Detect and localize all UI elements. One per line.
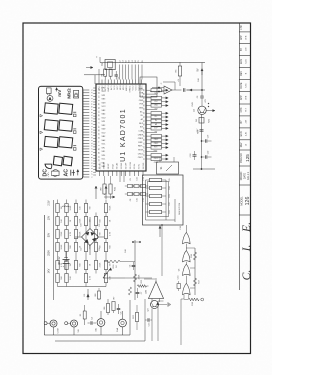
battery BT1 9V: [58, 251, 70, 270]
resistor R17 zigzag: [193, 278, 200, 286]
gate U3C: [179, 264, 191, 275]
op-amp U1 KAD7001 IC body: [96, 84, 146, 171]
input jack J4 10A: [116, 311, 126, 335]
gate U3B: [183, 251, 191, 262]
LCD digit 3 (full 8): [44, 120, 72, 132]
title model cell: [239, 196, 251, 206]
positive supply rail wire: [95, 56, 205, 63]
LCD annunciator mV text: [56, 88, 63, 97]
second rail wire: [53, 200, 55, 300]
IC U1 top pins to LCD: [93, 87, 106, 175]
input jack J3 mA: [95, 311, 105, 335]
page border frame: [23, 23, 251, 354]
capacitor C20: [201, 151, 212, 159]
gate feedback rail wire: [186, 248, 195, 295]
switch S1 wiper: [103, 268, 125, 278]
resistor R10: [109, 176, 117, 199]
resistor R4 box: [196, 118, 204, 124]
resistor R25 zigzag: [133, 274, 140, 282]
capacitor C18: [190, 151, 197, 160]
range grid left bus: [58, 286, 107, 288]
LCD digit 1 (half digit + 8): [45, 156, 72, 169]
LCD top pointer marks: [40, 114, 43, 150]
range divider resistor grid: [56, 200, 112, 287]
arrow node marker: [86, 66, 93, 68]
LCD annunciator diode symbol: [47, 96, 53, 102]
title dwg number cell: [241, 153, 250, 163]
title name date cell: [240, 171, 250, 180]
title block strip: [239, 23, 250, 290]
wires to left border: [145, 299, 164, 341]
capacitor C3: [197, 90, 207, 106]
resistor R18 vertical: [184, 298, 204, 306]
supply arrow +9V: [197, 68, 203, 75]
LCD annunciator AC text: [64, 169, 70, 177]
IC U1 bottom pins with net label boxes: [138, 88, 168, 164]
capacitor C7 cluster: [125, 249, 143, 298]
capacitor C14: [177, 275, 180, 291]
jack bus wire: [44, 300, 130, 335]
capacitor C4: [88, 316, 97, 324]
IC U1 left pins: [99, 162, 145, 176]
wire box to op-amp: [161, 224, 162, 276]
mid rail wire: [132, 240, 140, 300]
LCD digit 2 (full 8): [44, 136, 72, 148]
resistor R9: [101, 176, 107, 195]
fuse F1: [80, 305, 86, 325]
range wiper arrows: [95, 186, 107, 199]
arrow into R10: [104, 196, 115, 198]
inductor squiggle: [62, 206, 69, 207]
transistor Q3: [148, 301, 159, 312]
LCD annunciator minus plus marks: [71, 169, 79, 175]
box inner outline: [148, 182, 169, 217]
revision table headers: [240, 25, 247, 147]
LCD annunciator MkOhm text: [66, 88, 72, 99]
LCD annunciator battery icon: [74, 90, 79, 98]
crystal box X1: [102, 60, 115, 70]
COM rail wire top: [43, 215, 45, 335]
op-amp U2A feedback: [163, 79, 190, 92]
resistor R22: [133, 305, 139, 330]
ground Q3: [159, 302, 171, 306]
capacitor C17: [197, 128, 204, 133]
LCD digit 4 (full 8): [44, 103, 72, 115]
transistor area labels: [198, 78, 211, 134]
gate chain bottom wire: [181, 299, 184, 345]
oscillator fan-out wires: [119, 60, 144, 79]
input jack J2 V-ohm: [65, 320, 80, 335]
wire transistor rail: [187, 63, 215, 170]
AC converter box: [143, 175, 184, 225]
resistor R6: [104, 299, 110, 315]
resistor R1: [101, 69, 106, 80]
LCD decimal points: [73, 112, 76, 150]
switch group box: [140, 77, 157, 97]
LCD annunciator low-battery symbol: [47, 88, 52, 95]
resistor R21 zigzag: [137, 279, 149, 288]
gate U3A: [180, 225, 190, 243]
capacitor C15: [145, 318, 152, 326]
title text C.I.E.: [240, 222, 253, 280]
wire gate chain rail: [185, 225, 187, 283]
op-amp U2A: [150, 82, 172, 94]
diode bridge D2-D5: [75, 217, 104, 255]
input jack J1 COM: [44, 320, 59, 335]
transistor Q2: [192, 102, 215, 114]
capacitor C1: [115, 71, 121, 80]
resistors R11-R15 in box: [146, 178, 182, 222]
IC U1 right pins: [99, 80, 144, 93]
wire from IC right to oscillator cluster: [84, 69, 105, 84]
resistor R7: [112, 296, 116, 313]
LCD annunciator buzzer symbol: [52, 170, 60, 177]
resistor R2: [109, 69, 112, 80]
capacitor C5: [117, 304, 123, 314]
switch box S1-A: [157, 157, 179, 174]
wire into box: [159, 225, 161, 237]
resistor R24 zigzag: [104, 260, 135, 268]
LCD annunciator DC text: [42, 169, 48, 177]
range label row: [46, 172, 51, 274]
op-amp U2B: [146, 278, 164, 302]
left inner rail wire: [55, 330, 145, 341]
wire bus bottom-left: [125, 278, 155, 279]
resistor R16 zigzag: [191, 252, 197, 260]
cluster near J3 diode D1: [84, 288, 101, 300]
capacitor bank C8-C13: [120, 171, 148, 202]
capacitor C6: [129, 262, 135, 270]
LCD pin row with pin numbers: [83, 89, 93, 178]
resistor R3: [175, 62, 181, 86]
LCD display DS1 outline: [39, 86, 83, 179]
gate U3D: [183, 283, 191, 299]
capacitor C19: [201, 135, 212, 143]
